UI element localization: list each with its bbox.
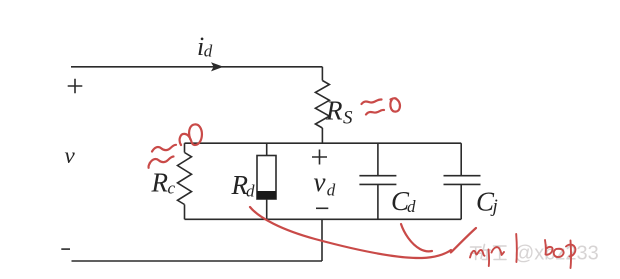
capacitor Cj top plate [444, 175, 481, 177]
plus sign of vd [312, 150, 327, 165]
arrow head for current id [211, 62, 224, 71]
minus sign of source v [61, 248, 70, 250]
svg-text:d: d [246, 182, 255, 201]
wire Rd bottom stub [266, 199, 268, 219]
svg-text:d: d [407, 197, 416, 216]
minus sign of vd [316, 207, 328, 209]
resistor RS [315, 81, 329, 129]
annotation hook under Cd [401, 224, 432, 251]
resistor Rc [178, 153, 192, 205]
svg-text:R: R [151, 168, 169, 198]
wire box right edge upper [460, 143, 462, 176]
watermark 知乎@xbz233 [471, 243, 599, 265]
capacitor Cd top plate [359, 175, 396, 177]
annotation handwriting b [545, 240, 553, 255]
annotation slash stroke [451, 228, 476, 253]
annotation approx-equal wave lower (RS ~ 0) [366, 110, 384, 115]
svg-text:v: v [314, 167, 326, 197]
svg-text:R: R [325, 95, 343, 125]
annotation handwriting n arch [492, 247, 505, 255]
wire RS bottom stub [321, 128, 323, 143]
annotation infinity symbol [180, 124, 202, 145]
resistor Rd black band [257, 191, 276, 199]
wire Rd top stub [266, 143, 268, 155]
svg-text:v: v [65, 143, 76, 168]
annotation approx-equal wave upper (Rc ~ infinity) [152, 145, 176, 152]
svg-text:d: d [327, 181, 336, 200]
wire top rail [71, 66, 322, 68]
annotation handwriting m humps [470, 250, 485, 257]
wire bottom rail [72, 260, 323, 262]
annotation long curve from Rd to bottom [250, 207, 451, 258]
capacitor Cd bottom plate [359, 183, 396, 185]
wire box bottom edge [185, 218, 462, 220]
wire box left edge bottom stub [184, 205, 186, 220]
annotation handwriting p bowl [566, 245, 575, 257]
svg-text:S: S [343, 108, 353, 129]
wire box top edge [185, 142, 462, 144]
wire box right edge lower [460, 184, 462, 219]
capacitor Cd top stub [377, 143, 379, 176]
annotation handwriting tall stroke [515, 234, 518, 262]
annotation handwriting i stroke [488, 250, 491, 267]
svg-text:@xbz233: @xbz233 [514, 243, 599, 265]
svg-text:d: d [204, 42, 213, 61]
wire box left edge top stub [184, 143, 186, 152]
wire middle branch to bottom rail [321, 219, 323, 261]
resistor Rd body [257, 156, 276, 200]
annotation approx-equal wave upper (RS ~ 0) [362, 99, 382, 104]
plus sign of source v [68, 79, 83, 94]
annotation zero [390, 98, 400, 111]
annotation handwriting p stem [570, 241, 573, 269]
capacitor Cj bottom plate [444, 183, 481, 185]
capacitor Cd bottom stub [377, 184, 379, 219]
annotation handwriting o [554, 249, 564, 257]
wire RS top stub [321, 67, 323, 81]
annotation approx-equal wave lower (Rc ~ infinity) [149, 157, 174, 168]
svg-text:c: c [168, 179, 176, 198]
